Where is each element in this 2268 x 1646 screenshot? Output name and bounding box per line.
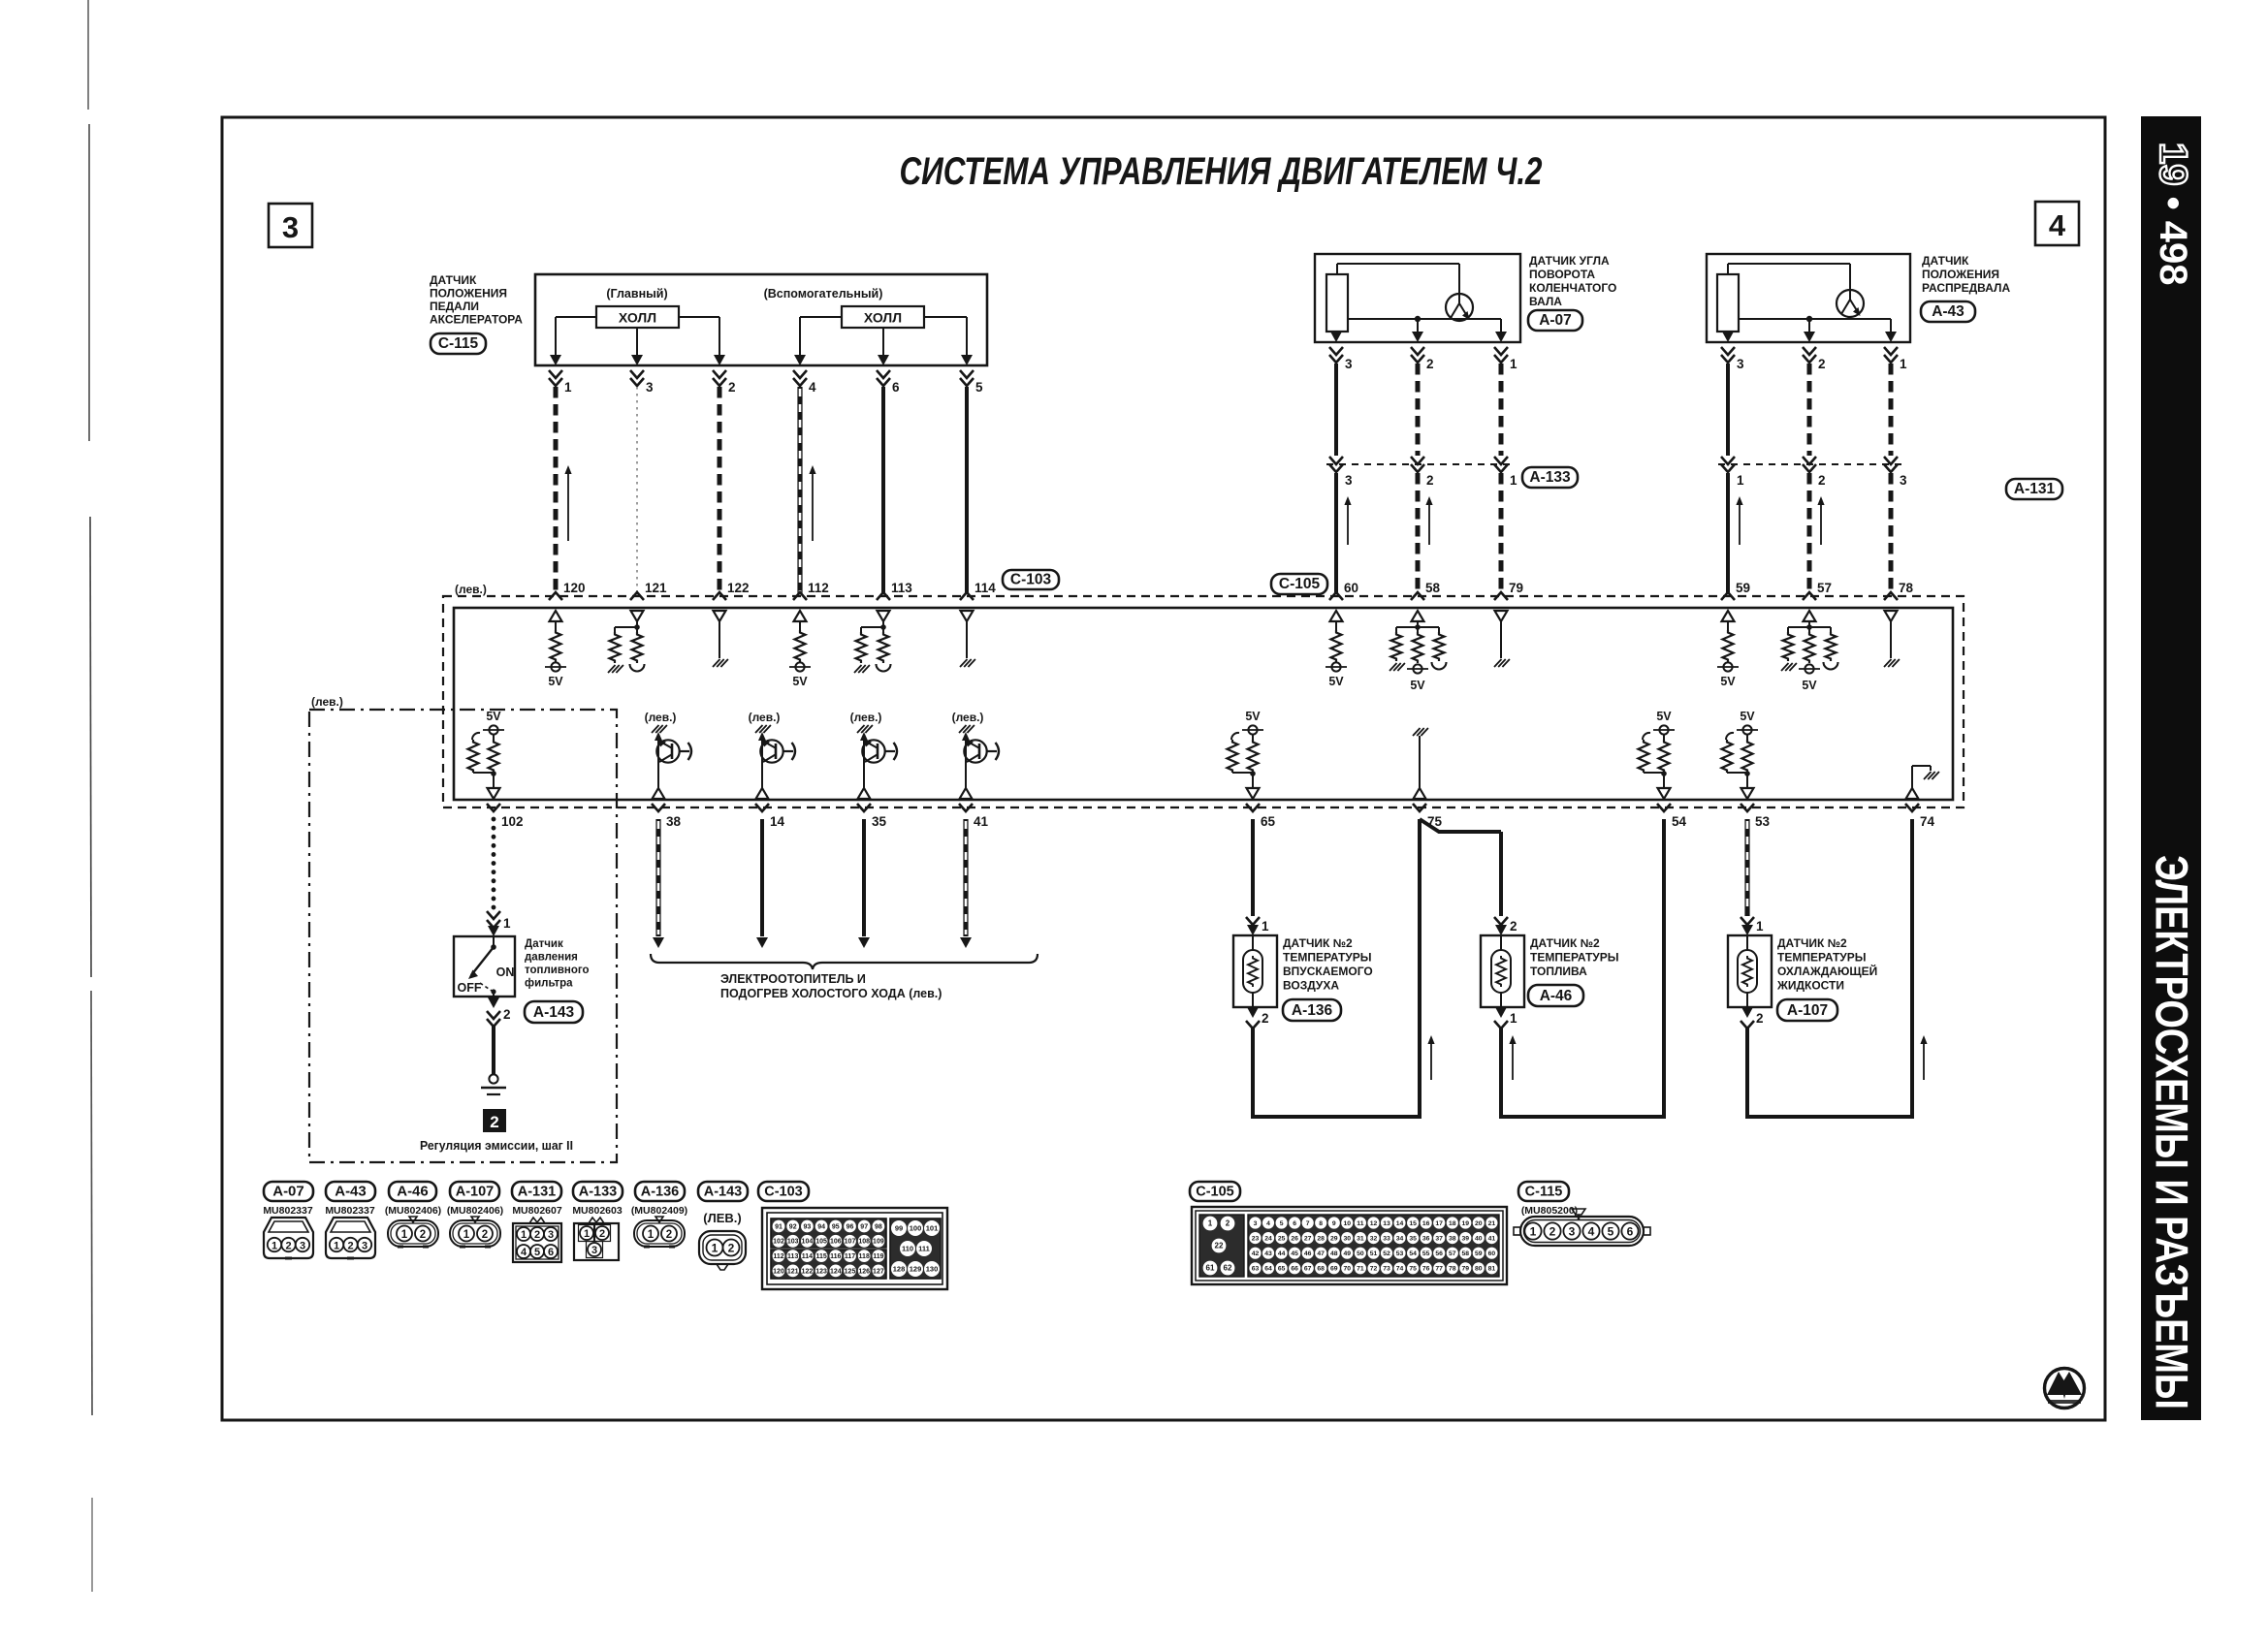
svg-text:19 • 498: 19 • 498	[2152, 142, 2194, 285]
ECU pull-up at pin 120	[545, 611, 566, 688]
svg-text:3: 3	[646, 380, 654, 395]
svg-text:13: 13	[1383, 1220, 1390, 1227]
wire pin3 faint dotted	[636, 387, 638, 594]
ECU top pin 60 junction	[1329, 581, 1358, 600]
gallery part MU802406 b	[447, 1205, 503, 1217]
svg-text:давления: давления	[525, 952, 578, 964]
svg-text:фильтра: фильтра	[525, 978, 573, 990]
gallery label A-43	[326, 1182, 375, 1201]
svg-text:113: 113	[891, 581, 912, 595]
svg-text:A-07: A-07	[1539, 312, 1572, 329]
svg-text:4: 4	[2049, 208, 2066, 242]
svg-text:60: 60	[1488, 1250, 1496, 1257]
svg-text:ПОДОГРЕВ ХОЛОСТОГО ХОДА (лев.): ПОДОГРЕВ ХОЛОСТОГО ХОДА (лев.)	[720, 987, 942, 1000]
svg-text:4: 4	[1266, 1220, 1270, 1227]
wire 78 dashed	[1889, 473, 1894, 594]
svg-text:52: 52	[1383, 1250, 1390, 1257]
svg-text:MU802603: MU802603	[572, 1205, 623, 1217]
svg-text:A-143: A-143	[704, 1184, 743, 1199]
svg-text:1: 1	[1262, 919, 1269, 934]
svg-text:2: 2	[666, 1229, 672, 1241]
crank sensor element	[1326, 274, 1348, 332]
hall element 1 ХОЛЛ	[596, 306, 679, 328]
svg-text:ON: ON	[496, 965, 515, 979]
connector line A-133	[1326, 463, 1513, 465]
svg-text:3: 3	[1569, 1225, 1576, 1239]
svg-text:5V: 5V	[792, 675, 808, 688]
cam transistor	[1837, 290, 1864, 317]
svg-text:4: 4	[809, 380, 816, 395]
svg-text:ПОЛОЖЕНИЯ: ПОЛОЖЕНИЯ	[1922, 268, 1999, 281]
A-133 pin 2 junction	[1411, 457, 1434, 488]
ECU outer dashed box	[443, 596, 1964, 807]
connector label C-115	[431, 333, 486, 354]
svg-text:2: 2	[1262, 1011, 1269, 1026]
svg-text:17: 17	[1435, 1220, 1443, 1227]
wire switch to ground	[492, 1025, 495, 1074]
connector label A-46	[1528, 985, 1583, 1006]
svg-text:39: 39	[1462, 1235, 1470, 1242]
ECU ground at pin 114	[960, 611, 975, 667]
ECU bottom pin 53 junction	[1741, 804, 1771, 829]
svg-text:120: 120	[773, 1268, 784, 1275]
wire hall2 to pin 4	[800, 317, 842, 355]
svg-text:81: 81	[1488, 1266, 1496, 1273]
svg-text:2: 2	[490, 1113, 498, 1131]
svg-text:121: 121	[787, 1268, 799, 1275]
svg-text:5: 5	[1280, 1220, 1284, 1227]
svg-text:47: 47	[1317, 1250, 1325, 1257]
svg-text:29: 29	[1330, 1235, 1338, 1242]
ECU 5V source at pin 53	[1722, 710, 1759, 799]
page-link box 4	[2035, 202, 2079, 245]
ECU inner solid box	[454, 608, 1953, 800]
ECU top pin 113 junction	[877, 581, 912, 600]
svg-text:101: 101	[926, 1224, 939, 1233]
svg-text:57: 57	[1817, 581, 1832, 595]
svg-text:3: 3	[1900, 473, 1907, 488]
svg-text:5: 5	[975, 380, 983, 395]
crank transistor	[1446, 294, 1473, 321]
hall label (Главный)	[606, 287, 667, 301]
svg-text:2: 2	[728, 380, 736, 395]
sidebar section title ЭЛЕКТРОСХЕМЫ И РАЗЪЕМЫ	[2147, 855, 2198, 1409]
ECU top pin 112 junction	[793, 581, 829, 600]
gallery connector C-103	[762, 1208, 947, 1289]
gallery label A-07	[264, 1182, 313, 1201]
svg-text:A-136: A-136	[1292, 1002, 1333, 1019]
connector line A-131	[1718, 463, 1904, 465]
svg-text:5V: 5V	[1656, 710, 1672, 723]
gallery connector A-136	[634, 1217, 685, 1247]
svg-text:94: 94	[817, 1223, 825, 1230]
svg-text:(Вспомогательный): (Вспомогательный)	[764, 287, 883, 301]
svg-text:41: 41	[974, 814, 989, 829]
connector label A-143	[525, 1001, 583, 1023]
svg-text:A-131: A-131	[518, 1184, 557, 1199]
svg-text:1: 1	[1510, 1011, 1517, 1026]
svg-text:78: 78	[1449, 1266, 1456, 1273]
svg-text:109: 109	[873, 1239, 884, 1246]
svg-text:A-46: A-46	[1540, 988, 1573, 1004]
svg-text:76: 76	[1422, 1266, 1430, 1273]
main border frame	[222, 117, 2105, 1420]
current arrow beside 57	[1817, 496, 1824, 545]
svg-text:112: 112	[773, 1253, 783, 1260]
svg-text:1: 1	[712, 1242, 719, 1255]
svg-text:1: 1	[1737, 473, 1744, 488]
svg-text:2: 2	[1426, 357, 1434, 371]
svg-text:33: 33	[1383, 1235, 1390, 1242]
svg-text:A-136: A-136	[641, 1184, 680, 1199]
ECU divider at pin 58	[1390, 611, 1447, 692]
svg-text:2: 2	[1818, 357, 1826, 371]
svg-text:2: 2	[482, 1229, 488, 1241]
ECU top pin 120 junction	[549, 581, 586, 600]
connector label A-133	[1522, 467, 1578, 488]
wire hall1 to pin 2	[679, 317, 719, 355]
ECU top pin 79 junction	[1494, 581, 1523, 600]
current arrow beside 58	[1425, 496, 1432, 545]
svg-text:21: 21	[1488, 1220, 1496, 1227]
svg-text:ТЕМПЕРАТУРЫ: ТЕМПЕРАТУРЫ	[1777, 951, 1867, 965]
svg-text:(MU802406): (MU802406)	[385, 1205, 441, 1217]
connector label A-43	[1921, 301, 1975, 322]
wire pin6 solid	[881, 387, 885, 594]
ECU divider at pin 121	[608, 611, 645, 673]
svg-text:97: 97	[860, 1223, 868, 1230]
coolant temp label	[1776, 936, 1877, 993]
connector label A-131	[2006, 479, 2062, 499]
svg-text:2: 2	[285, 1241, 291, 1252]
svg-text:C-115: C-115	[438, 335, 479, 352]
svg-text:ОХЛАЖДАЮЩЕЙ: ОХЛАЖДАЮЩЕЙ	[1777, 964, 1877, 978]
svg-text:C-103: C-103	[1010, 571, 1052, 587]
ECU 5V source at pin 65	[1228, 710, 1264, 799]
svg-text:54: 54	[1409, 1250, 1417, 1257]
current arrow beside 74	[1920, 1035, 1927, 1080]
svg-text:5V: 5V	[486, 710, 501, 723]
svg-text:3: 3	[548, 1229, 554, 1241]
svg-text:РАСПРЕДВАЛА: РАСПРЕДВАЛА	[1922, 281, 2010, 295]
svg-text:ПОВОРОТА: ПОВОРОТА	[1529, 268, 1595, 281]
gallery connector A-07	[264, 1218, 313, 1258]
crank pin 2 exit	[1411, 332, 1434, 371]
svg-text:114: 114	[974, 581, 996, 595]
svg-text:ТЕМПЕРАТУРЫ: ТЕМПЕРАТУРЫ	[1530, 951, 1619, 965]
svg-text:95: 95	[832, 1223, 840, 1230]
wire pin5 solid	[965, 387, 969, 594]
svg-text:79: 79	[1509, 581, 1523, 595]
ECU top pin 78 junction	[1884, 581, 1914, 600]
svg-text:5V: 5V	[1410, 679, 1425, 692]
svg-text:98: 98	[875, 1223, 882, 1230]
svg-text:123: 123	[815, 1268, 827, 1275]
gallery part MU805200	[1521, 1205, 1578, 1217]
crank sensor label	[1529, 254, 1616, 308]
svg-text:1: 1	[564, 380, 572, 395]
svg-text:32: 32	[1370, 1235, 1378, 1242]
wire hall1 to pin 3	[636, 328, 638, 355]
svg-text:1: 1	[1900, 357, 1907, 371]
current arrow beside 75	[1427, 1035, 1434, 1080]
svg-text:74: 74	[1396, 1266, 1404, 1273]
ECU driver transistor Q4 pin 41	[952, 711, 999, 799]
svg-text:61: 61	[1206, 1264, 1215, 1273]
cam inner wire bottom	[1739, 319, 1891, 332]
connector label C-105	[1271, 574, 1327, 594]
svg-text:3: 3	[1737, 357, 1744, 371]
ECU pull-up at pin 59	[1717, 611, 1739, 688]
wire 102 dotted	[492, 819, 496, 909]
svg-text:10: 10	[1344, 1220, 1352, 1227]
gallery label A-136	[635, 1182, 685, 1201]
svg-text:121: 121	[645, 581, 667, 595]
svg-text:C-115: C-115	[1525, 1184, 1563, 1199]
gallery label C-103	[758, 1182, 809, 1201]
A-133 pin 3 junction	[1329, 457, 1353, 488]
svg-text:A-131: A-131	[2014, 481, 2056, 497]
svg-text:2: 2	[1756, 1011, 1764, 1026]
crank pin 3 exit	[1329, 332, 1353, 371]
svg-text:113: 113	[787, 1253, 798, 1260]
svg-text:105: 105	[815, 1239, 827, 1246]
svg-text:34: 34	[1396, 1235, 1404, 1242]
svg-text:1: 1	[463, 1229, 470, 1241]
pedal pin 1 exit	[549, 355, 572, 395]
svg-text:114: 114	[802, 1253, 813, 1260]
svg-text:(лев.): (лев.)	[311, 695, 343, 709]
svg-text:1: 1	[1510, 473, 1517, 488]
svg-text:ЭЛЕКТРОСХЕМЫ И РАЗЪЕМЫ: ЭЛЕКТРОСХЕМЫ И РАЗЪЕМЫ	[2147, 855, 2198, 1409]
switch label	[525, 938, 590, 990]
svg-text:14: 14	[1396, 1220, 1404, 1227]
svg-text:1: 1	[648, 1229, 655, 1241]
svg-text:6: 6	[892, 380, 900, 395]
svg-text:2: 2	[728, 1242, 735, 1255]
svg-text:C-105: C-105	[1279, 576, 1321, 592]
svg-text:22: 22	[1215, 1242, 1224, 1250]
ECU top pin 122 junction	[713, 581, 750, 600]
wire pin4 two-tone	[797, 387, 802, 594]
svg-text:3: 3	[1345, 473, 1353, 488]
wire 65 solid	[1251, 819, 1255, 916]
svg-text:топливного: топливного	[525, 965, 590, 976]
svg-text:102: 102	[773, 1239, 784, 1246]
svg-text:53: 53	[1396, 1250, 1404, 1257]
sensor A-46 pin 2 entry	[1494, 917, 1517, 935]
svg-text:4: 4	[1588, 1225, 1595, 1239]
gallery label A-133	[573, 1182, 623, 1201]
svg-text:74: 74	[1920, 814, 1935, 829]
svg-text:2: 2	[1426, 473, 1434, 488]
svg-text:MU802337: MU802337	[325, 1205, 375, 1217]
svg-text:ХОЛЛ: ХОЛЛ	[619, 310, 656, 326]
wire cam 1 dashed	[1889, 364, 1894, 456]
svg-text:59: 59	[1736, 581, 1750, 595]
svg-text:2: 2	[534, 1229, 540, 1241]
svg-text:ДАТЧИК №2: ДАТЧИК №2	[1530, 936, 1600, 950]
wire 75 riser	[1418, 819, 1421, 1119]
svg-text:5V: 5V	[1245, 710, 1261, 723]
gallery label A-107	[450, 1182, 499, 1201]
ECU bottom pin 74 junction	[1905, 804, 1935, 829]
cam pin 3 exit	[1721, 332, 1744, 371]
svg-text:127: 127	[873, 1268, 884, 1275]
svg-text:5: 5	[534, 1247, 540, 1258]
fuel filter pressure switch box	[454, 936, 515, 997]
svg-text:2: 2	[599, 1228, 605, 1240]
svg-text:20: 20	[1475, 1220, 1483, 1227]
crank pin 1 exit	[1494, 332, 1517, 371]
svg-text:2: 2	[1549, 1225, 1556, 1239]
svg-text:56: 56	[1435, 1250, 1443, 1257]
svg-text:125: 125	[845, 1268, 856, 1275]
svg-text:37: 37	[1435, 1235, 1443, 1242]
svg-text:38: 38	[1449, 1235, 1456, 1242]
pedal pin 3 exit	[630, 355, 654, 395]
heater label	[720, 972, 942, 1000]
ECU driver transistor Q2 pin 14	[749, 711, 795, 799]
svg-text:77: 77	[1435, 1266, 1443, 1273]
svg-text:112: 112	[808, 581, 829, 595]
svg-text:130: 130	[926, 1265, 939, 1274]
wire hall1 to pin 1	[556, 317, 596, 355]
svg-text:40: 40	[1475, 1235, 1483, 1242]
svg-text:41: 41	[1488, 1235, 1496, 1242]
svg-text:ДАТЧИК УГЛА: ДАТЧИК УГЛА	[1529, 254, 1610, 268]
svg-text:5V: 5V	[1328, 675, 1344, 688]
svg-text:62: 62	[1224, 1264, 1232, 1273]
svg-text:59: 59	[1475, 1250, 1483, 1257]
ECU top pin 57 junction	[1803, 581, 1832, 600]
A-131 pin 3 junction	[1884, 457, 1907, 488]
svg-text:65: 65	[1261, 814, 1276, 829]
svg-text:2: 2	[1510, 919, 1517, 934]
svg-text:128: 128	[893, 1265, 906, 1274]
svg-text:6: 6	[1627, 1225, 1634, 1239]
svg-text:ВОЗДУХА: ВОЗДУХА	[1283, 979, 1339, 993]
emission tag 2	[483, 1109, 506, 1132]
svg-text:122: 122	[727, 581, 750, 595]
svg-text:1: 1	[272, 1241, 277, 1252]
svg-text:A-46: A-46	[397, 1183, 429, 1199]
svg-text:2: 2	[347, 1241, 353, 1252]
ECU 5V source at pin 54	[1639, 710, 1676, 799]
hall element 2 ХОЛЛ	[842, 306, 924, 328]
svg-text:ВПУСКАЕМОГО: ВПУСКАЕМОГО	[1283, 965, 1373, 978]
svg-text:49: 49	[1344, 1250, 1352, 1257]
cam sensor box	[1707, 254, 1910, 342]
ECU ground at pin 78	[1884, 611, 1900, 667]
wire cam 2 dashed	[1807, 364, 1812, 456]
svg-text:65: 65	[1278, 1266, 1286, 1273]
ECU top pin 58 junction	[1411, 581, 1441, 600]
svg-text:66: 66	[1291, 1266, 1298, 1273]
svg-text:5: 5	[1608, 1225, 1614, 1239]
svg-text:19: 19	[1462, 1220, 1470, 1227]
cam sensor element	[1717, 274, 1739, 332]
svg-text:58: 58	[1462, 1250, 1470, 1257]
svg-text:(лев.): (лев.)	[749, 711, 781, 724]
svg-text:45: 45	[1291, 1250, 1298, 1257]
svg-text:35: 35	[872, 814, 887, 829]
current arrow beside 60	[1344, 496, 1351, 545]
ECU divider at pin 113	[854, 611, 891, 673]
wire A-136 return	[1253, 1028, 1420, 1117]
connector label A-136	[1283, 999, 1341, 1021]
svg-text:ПОЛОЖЕНИЯ: ПОЛОЖЕНИЯ	[430, 287, 507, 301]
svg-text:A-133: A-133	[579, 1184, 618, 1199]
svg-text:104: 104	[802, 1239, 814, 1246]
wire 53 two-tone	[1744, 819, 1749, 916]
pedal pin 5 exit	[960, 355, 983, 395]
svg-text:ТЕМПЕРАТУРЫ: ТЕМПЕРАТУРЫ	[1283, 951, 1372, 965]
ECU top pin 121 junction	[630, 581, 667, 600]
svg-text:(Главный): (Главный)	[606, 287, 667, 301]
wire 38 two-tone	[653, 819, 664, 948]
svg-text:СИСТЕМА УПРАВЛЕНИЯ ДВИГАТЕЛЕМ: СИСТЕМА УПРАВЛЕНИЯ ДВИГАТЕЛЕМ Ч.2	[900, 150, 1543, 193]
air temp sensor box	[1233, 935, 1277, 1007]
svg-text:58: 58	[1425, 581, 1441, 595]
page left edge mark	[88, 0, 92, 1592]
svg-text:80: 80	[1475, 1266, 1483, 1273]
wire A-46 return	[1501, 1028, 1664, 1117]
svg-text:124: 124	[830, 1268, 842, 1275]
wire 79 dashed	[1499, 473, 1504, 594]
emission note	[420, 1138, 573, 1153]
svg-text:1: 1	[1510, 357, 1517, 371]
svg-text:115: 115	[815, 1253, 826, 1260]
connector label A-107	[1777, 999, 1837, 1021]
svg-text:ТОПЛИВА: ТОПЛИВА	[1530, 965, 1587, 978]
wire 41 two-tone	[960, 819, 972, 948]
svg-text:53: 53	[1755, 814, 1771, 829]
svg-text:5V: 5V	[548, 675, 563, 688]
svg-text:ЖИДКОСТИ: ЖИДКОСТИ	[1776, 979, 1844, 993]
svg-text:18: 18	[1449, 1220, 1456, 1227]
svg-text:ДАТЧИК: ДАТЧИК	[430, 273, 477, 287]
wire hall2 to pin 6	[882, 328, 884, 355]
gallery connector A-43	[326, 1218, 375, 1258]
svg-text:24: 24	[1264, 1235, 1272, 1242]
gallery part MU802607	[512, 1205, 562, 1217]
svg-text:107: 107	[845, 1239, 856, 1246]
svg-text:48: 48	[1330, 1250, 1338, 1257]
air temp thermistor	[1243, 935, 1262, 1007]
svg-text:12: 12	[1370, 1220, 1378, 1227]
wire 14 solid	[756, 819, 768, 948]
switch pin 2 junction	[487, 997, 511, 1027]
svg-text:15: 15	[1409, 1220, 1417, 1227]
gallery label A-131	[512, 1182, 561, 1201]
diagram title	[900, 150, 1543, 193]
svg-text:A-107: A-107	[456, 1184, 495, 1199]
svg-text:50: 50	[1357, 1250, 1364, 1257]
svg-text:A-133: A-133	[1529, 469, 1571, 486]
svg-text:(MU802409): (MU802409)	[631, 1205, 687, 1217]
svg-text:Регуляция эмиссии, шаг II: Регуляция эмиссии, шаг II	[420, 1138, 573, 1153]
svg-text:55: 55	[1422, 1250, 1430, 1257]
svg-text:79: 79	[1462, 1266, 1470, 1273]
svg-text:129: 129	[910, 1265, 922, 1274]
ECU ground hook at pin 74	[1906, 766, 1939, 799]
svg-text:46: 46	[1304, 1250, 1312, 1257]
chassis ground	[481, 1074, 506, 1094]
ECU ground at pin 79	[1494, 611, 1510, 667]
svg-text:23: 23	[1252, 1235, 1260, 1242]
svg-text:30: 30	[1344, 1235, 1352, 1242]
